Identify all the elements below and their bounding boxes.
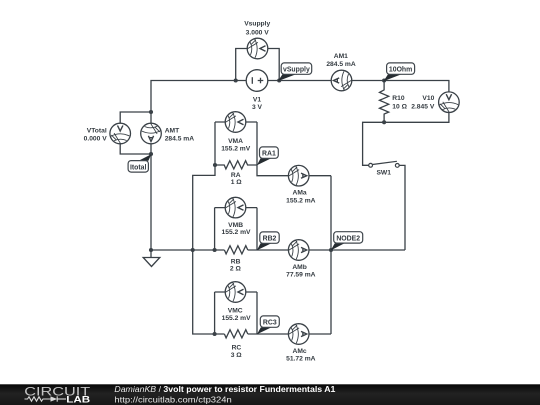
wire RC row to right bus: [248, 333, 331, 335]
svg-text:RC: RC: [232, 345, 242, 352]
node junction meters top split: [149, 110, 153, 114]
wire left bus A-to-C: [193, 165, 225, 334]
node NODE2 junction: [329, 248, 333, 252]
svg-text:RA: RA: [231, 172, 241, 179]
node flag RC3: [257, 316, 279, 334]
svg-text:RB2: RB2: [263, 236, 277, 243]
svg-text:10 Ω: 10 Ω: [392, 104, 407, 111]
svg-text:0.000 V: 0.000 V: [84, 135, 108, 142]
svg-text:155.2 mA: 155.2 mA: [286, 197, 316, 204]
node junction left bus on rail: [191, 248, 195, 252]
svg-text:VTotal: VTotal: [87, 127, 107, 134]
node junction Itotal: [149, 152, 153, 156]
svg-text:NODE2: NODE2: [336, 236, 360, 243]
svg-text:284.5 mA: 284.5 mA: [326, 61, 356, 68]
ground: [143, 250, 160, 267]
node flag vSupply: [278, 63, 312, 81]
logo resistor-diode glyph: [25, 396, 67, 401]
svg-text:AMa: AMa: [293, 190, 307, 197]
ammeter AMa: [288, 165, 309, 186]
svg-text:155.2 mV: 155.2 mV: [222, 229, 252, 236]
svg-text:77.59 mA: 77.59 mA: [286, 272, 316, 279]
svg-text:Itotal: Itotal: [130, 164, 147, 171]
svg-text:SW1: SW1: [376, 170, 391, 177]
resistor RC zigzag: [224, 330, 247, 338]
node junction VMB left: [213, 248, 217, 252]
svg-text:2.845 V: 2.845 V: [411, 104, 435, 111]
svg-text:51.72 mA: 51.72 mA: [286, 356, 316, 363]
node flag NODE2: [331, 232, 363, 251]
wire main loop: V1 row right to R10 column, down to bottom rail, to switch: [151, 81, 449, 166]
svg-text:R10: R10: [392, 95, 405, 102]
voltmeter Vsupply: [247, 38, 268, 59]
wire RB row to switch column: [248, 249, 405, 251]
footer bar: [0, 384, 540, 405]
svg-text:VMC: VMC: [228, 308, 243, 315]
node junction R10 top: [382, 78, 386, 82]
svg-text:RC3: RC3: [263, 320, 277, 327]
wire VMB box: [215, 208, 257, 250]
node junction ground: [149, 248, 153, 252]
svg-text:3.000 V: 3.000 V: [246, 29, 270, 36]
wire right bus AMa-AMc: [330, 176, 332, 334]
svg-text:RA1: RA1: [262, 151, 276, 158]
svg-text:RB: RB: [231, 259, 241, 266]
node flag RA1: [257, 147, 278, 165]
voltmeter VTotal: [110, 123, 131, 144]
wire ground rail to RB: [151, 249, 224, 251]
svg-text:3 V: 3 V: [252, 104, 263, 111]
voltmeter VMB: [225, 197, 246, 218]
ammeter AMc: [288, 324, 309, 345]
wire RA to AMa row: [257, 165, 331, 176]
wire AMT vertical: [150, 112, 152, 154]
svg-text:284.5 mA: 284.5 mA: [165, 135, 195, 142]
svg-text:155.2 mV: 155.2 mV: [221, 146, 251, 153]
svg-text:10Ohm: 10Ohm: [389, 67, 412, 74]
svg-text:Vsupply: Vsupply: [244, 21, 270, 28]
svg-text:VMA: VMA: [228, 138, 243, 145]
svg-text:vSupply: vSupply: [283, 67, 310, 74]
node flag RB2: [257, 232, 279, 250]
wire down to ground rail: [150, 154, 152, 250]
node junction vSupply: [277, 78, 281, 82]
node flag 10Ohm: [384, 63, 415, 81]
voltmeter VMC: [225, 282, 246, 303]
node flag Itotal: [128, 154, 151, 172]
wire VMA box: [215, 122, 257, 165]
svg-text:VMB: VMB: [228, 222, 243, 229]
svg-text:AMc: AMc: [293, 348, 307, 355]
node junction RA left: [213, 163, 217, 167]
voltage source V1: [246, 70, 268, 92]
svg-text:AMb: AMb: [292, 264, 307, 271]
svg-text:LAB: LAB: [66, 395, 90, 404]
ammeter AM1: [331, 70, 352, 91]
svg-text:3 Ω: 3 Ω: [231, 352, 243, 359]
svg-text:http://circuitlab.com/ctp324n: http://circuitlab.com/ctp324n: [114, 395, 232, 405]
ammeter AMT: [141, 123, 162, 144]
wire VMC box: [215, 292, 257, 334]
svg-text:155.2 mV: 155.2 mV: [222, 315, 252, 322]
svg-text:2 Ω: 2 Ω: [230, 266, 242, 273]
voltmeter V10: [439, 92, 460, 113]
svg-text:AMT: AMT: [165, 127, 180, 134]
resistor RB zigzag: [224, 246, 247, 254]
svg-text:AM1: AM1: [334, 53, 348, 60]
svg-text:V1: V1: [253, 97, 261, 104]
wire Vsupply measurement loop: [236, 49, 280, 81]
wire switch right down: [399, 165, 405, 250]
ammeter AMb: [288, 240, 309, 261]
svg-text:DamianKB / 3volt power to resi: DamianKB / 3volt power to resistor Funde…: [114, 384, 335, 394]
node junction V1 left: [234, 78, 238, 82]
switch SW1: [369, 161, 399, 167]
voltmeter VMA: [225, 112, 246, 133]
svg-text:V10: V10: [422, 95, 434, 102]
resistor RA zigzag: [215, 161, 257, 169]
node junction VMC left: [213, 332, 217, 336]
svg-text:1 Ω: 1 Ω: [231, 179, 243, 186]
wire VTotal branch: [120, 112, 151, 154]
resistor R10 vertical: [380, 81, 389, 123]
node junction R10 bottom: [382, 120, 386, 124]
